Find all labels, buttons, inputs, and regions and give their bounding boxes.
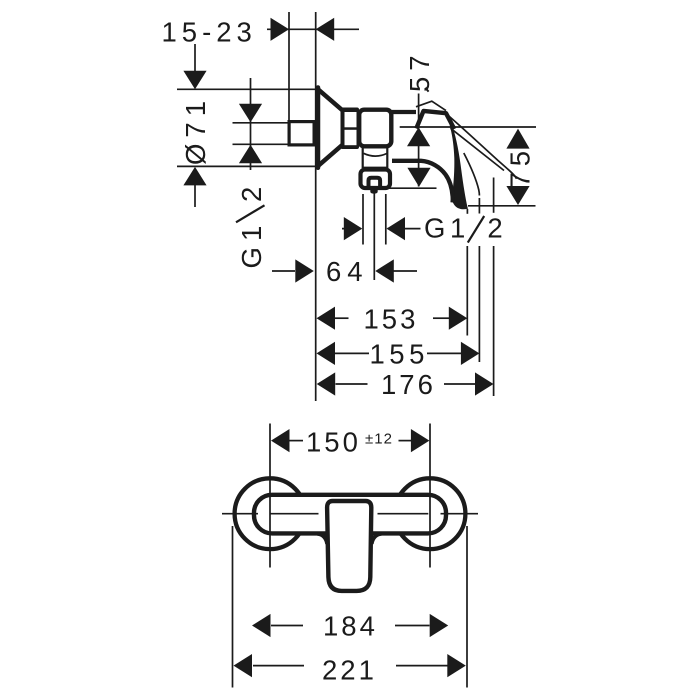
svg-text:184: 184 (323, 611, 378, 642)
svg-text:2: 2 (236, 184, 267, 202)
svg-text:221: 221 (322, 655, 377, 686)
svg-text:2: 2 (487, 213, 505, 244)
svg-text:15-23: 15-23 (162, 17, 257, 48)
svg-text:155: 155 (370, 339, 429, 370)
svg-text:150: 150 (306, 427, 361, 458)
svg-text:Ø71: Ø71 (180, 95, 211, 165)
svg-text:1: 1 (450, 213, 468, 244)
svg-text:176: 176 (381, 369, 436, 400)
svg-text:G: G (236, 244, 267, 268)
svg-text:64: 64 (326, 256, 369, 287)
svg-text:G: G (424, 213, 448, 244)
svg-text:57: 57 (404, 49, 435, 92)
svg-text:75: 75 (505, 145, 536, 188)
svg-text:153: 153 (364, 304, 419, 335)
svg-text:1: 1 (236, 223, 267, 241)
svg-text:±12: ±12 (365, 431, 393, 448)
